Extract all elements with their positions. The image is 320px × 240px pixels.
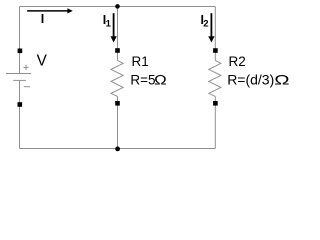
svg-text:R1: R1 xyxy=(132,54,149,69)
svg-text:R=5: R=5 xyxy=(130,73,155,88)
svg-text:V: V xyxy=(37,53,48,70)
svg-text:R2: R2 xyxy=(229,54,246,69)
svg-text:Ω: Ω xyxy=(154,73,167,88)
svg-text:1: 1 xyxy=(106,19,112,30)
svg-text:R=(d/3): R=(d/3) xyxy=(227,72,274,88)
svg-text:Ω: Ω xyxy=(274,72,289,88)
svg-text:2: 2 xyxy=(203,19,208,30)
svg-text:I: I xyxy=(41,12,44,26)
